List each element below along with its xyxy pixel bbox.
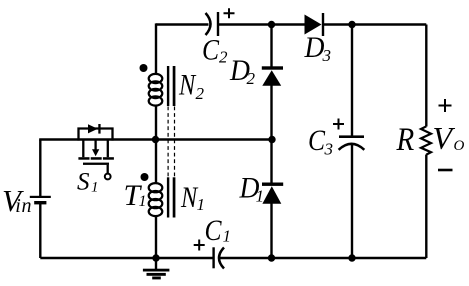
svg-text:2: 2 xyxy=(196,84,205,103)
svg-text:C: C xyxy=(202,34,219,67)
svg-text:V: V xyxy=(433,120,456,156)
svg-text:C: C xyxy=(205,214,222,247)
svg-text:1: 1 xyxy=(223,227,232,246)
svg-text:in: in xyxy=(15,195,32,217)
svg-text:1: 1 xyxy=(139,193,147,210)
svg-text:3: 3 xyxy=(322,46,332,65)
svg-text:D: D xyxy=(304,31,325,64)
svg-text:C: C xyxy=(308,124,325,157)
svg-text:R: R xyxy=(396,120,415,157)
svg-text:3: 3 xyxy=(324,140,334,159)
svg-text:N: N xyxy=(178,68,197,101)
svg-text:1: 1 xyxy=(256,187,265,206)
svg-text:2: 2 xyxy=(219,48,228,67)
svg-text:2: 2 xyxy=(247,69,256,88)
svg-text:O: O xyxy=(454,138,465,154)
svg-text:1: 1 xyxy=(197,195,206,214)
svg-text:1: 1 xyxy=(91,180,99,196)
svg-text:S: S xyxy=(77,169,90,196)
